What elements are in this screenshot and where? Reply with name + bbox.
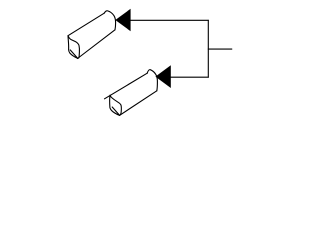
output stub wire: [208, 48, 232, 50]
U2 top silhouette line: [105, 73, 148, 99]
U2 cap inner 3D edge: [112, 107, 119, 115]
arrowhead into U2: [155, 65, 170, 88]
transducer U2 (bottom cylinder): [105, 70, 158, 116]
U2 bottom silhouette line: [120, 91, 157, 116]
junction vertical wire: [207, 20, 209, 77]
U1 cap inner 3D edge: [70, 50, 77, 58]
U1 top silhouette line: [68, 13, 104, 36]
U2 end cap outline: [110, 95, 122, 115]
arrowhead into U1: [115, 9, 130, 31]
transducer U1 (top cylinder): [68, 11, 116, 59]
wire from U1 to junction: [131, 19, 209, 21]
U1 end cap ellipse: [68, 36, 79, 59]
U1 bottom silhouette line: [78, 30, 116, 59]
U2 right rim arc: [147, 70, 157, 91]
wire from junction to U2: [171, 76, 209, 78]
U1 right rim arc: [104, 11, 115, 30]
